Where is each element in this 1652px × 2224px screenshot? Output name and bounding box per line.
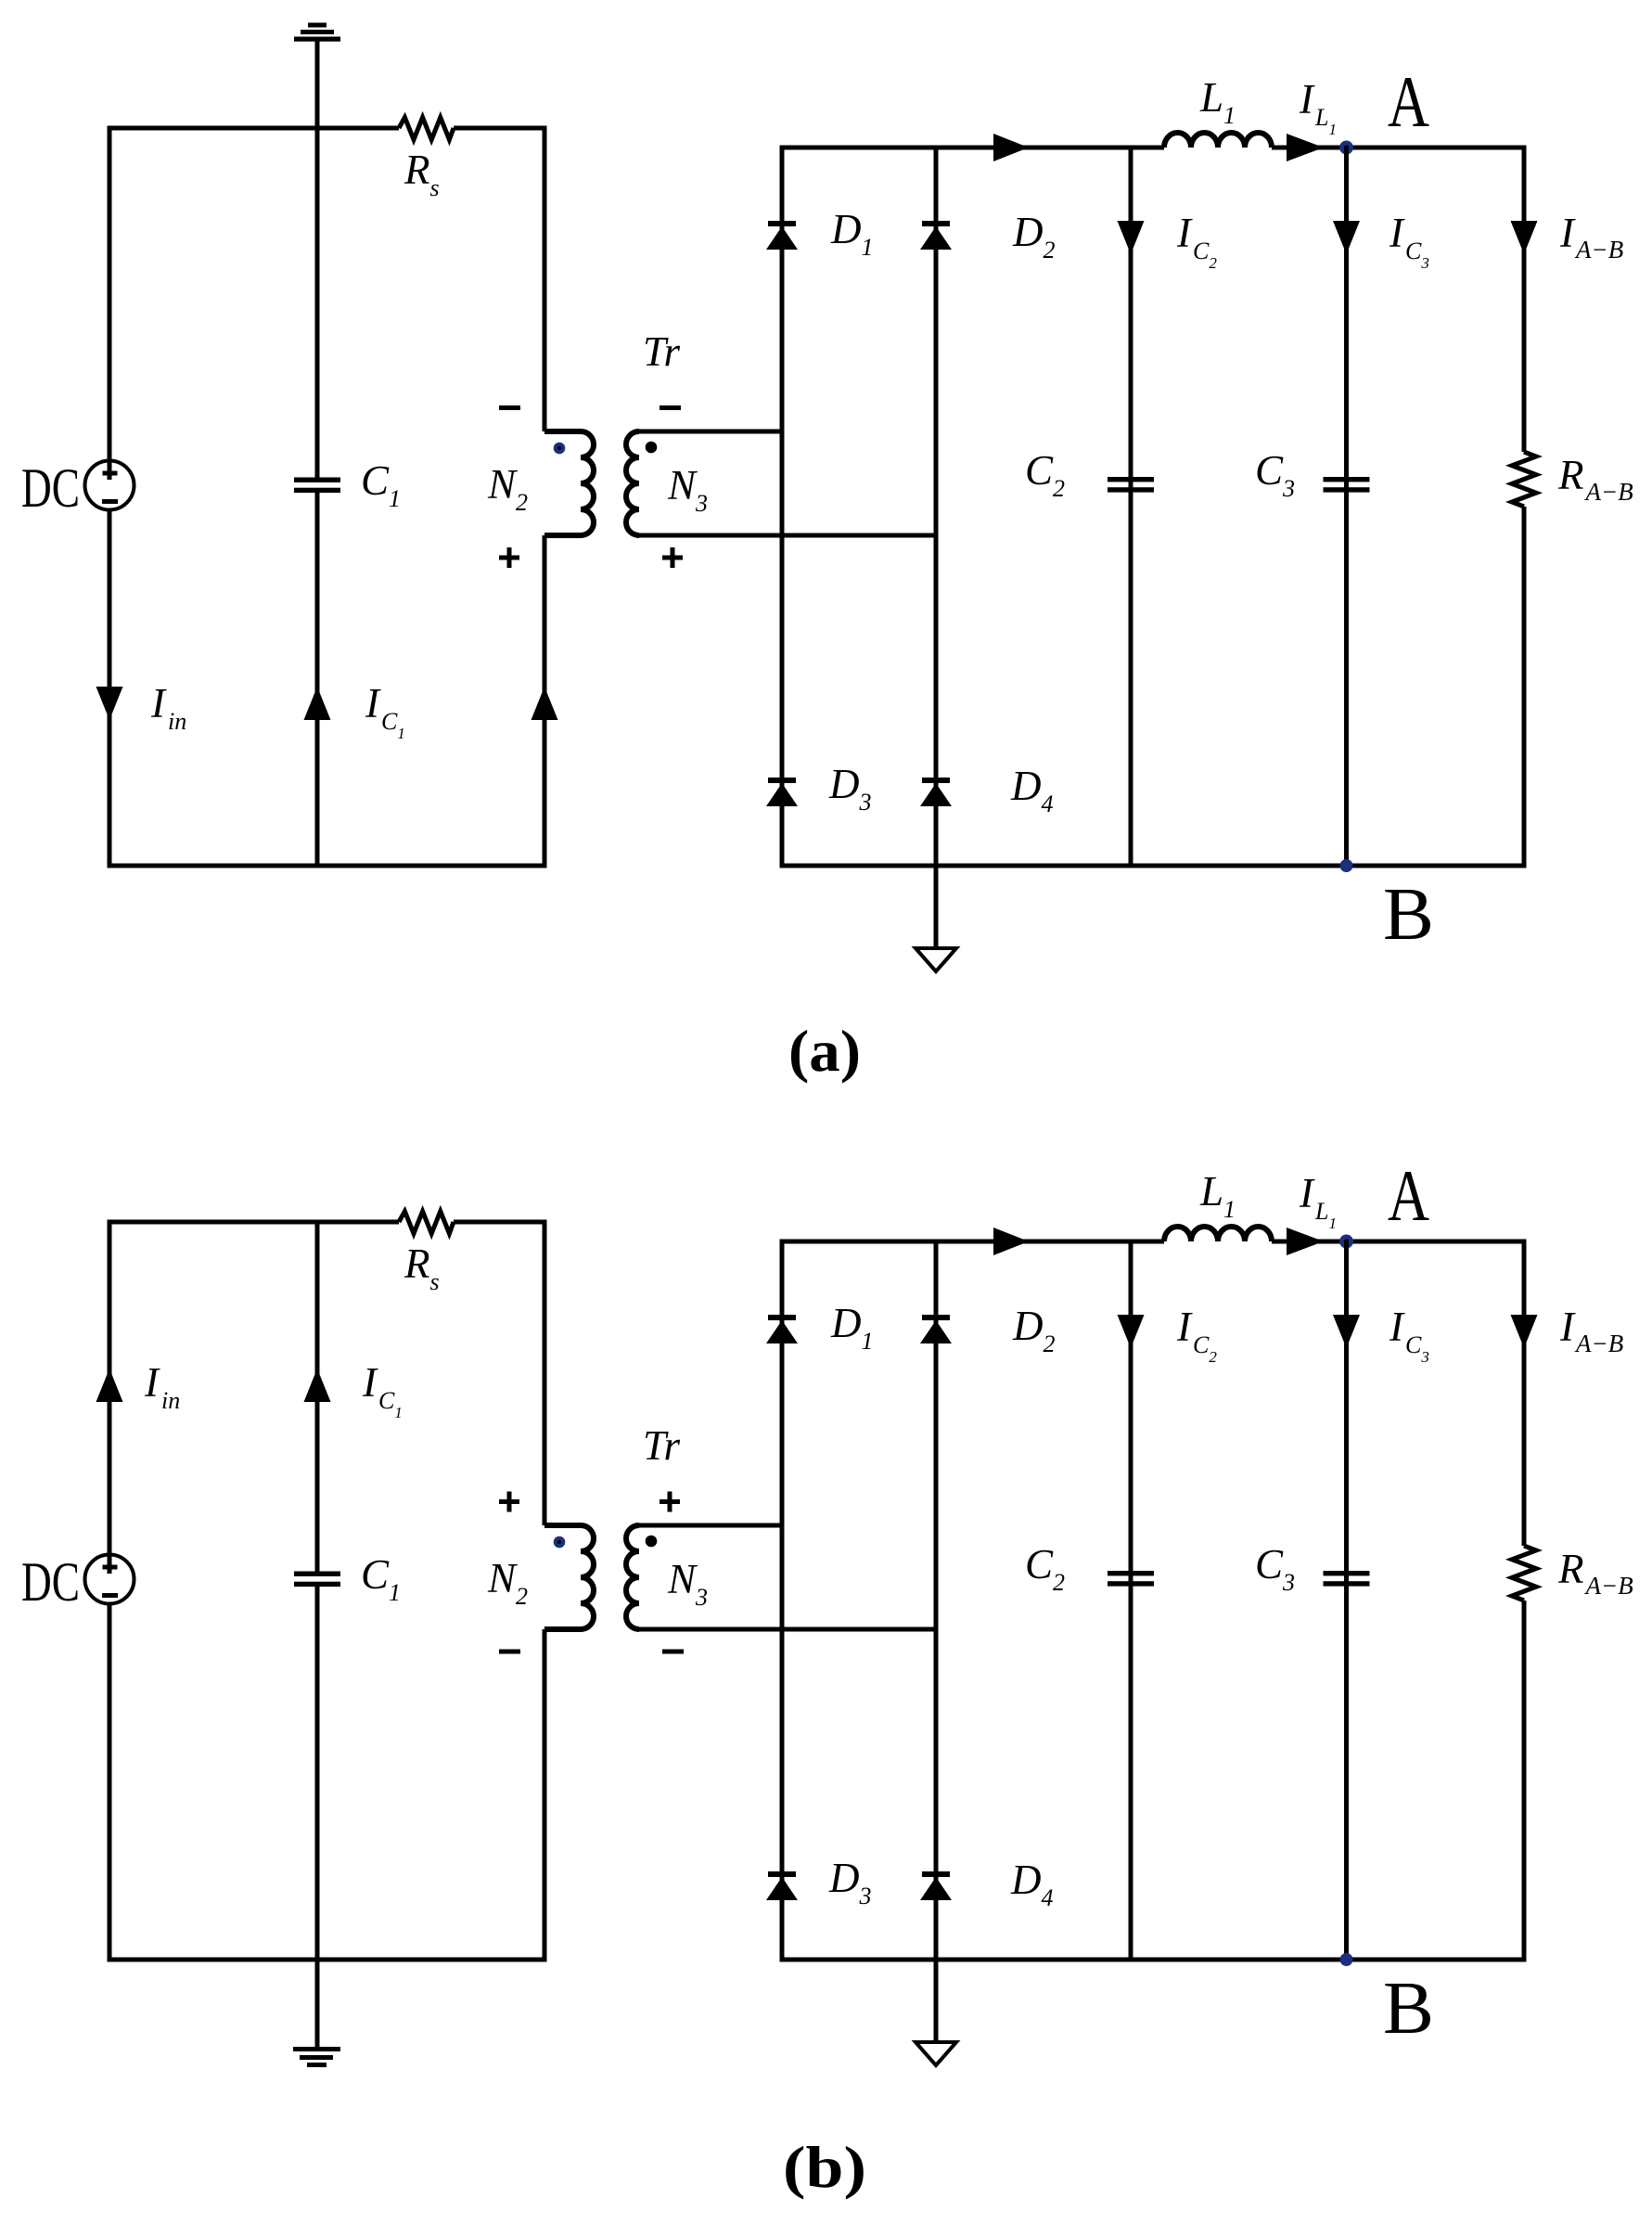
capacitor C1: [294, 478, 340, 494]
node B junction dot: [1340, 1953, 1353, 1966]
wire: D1/D3 branch: [780, 146, 785, 868]
wire: left vertical (source branch), lower: [108, 510, 112, 868]
wire: N3 top terminal: [639, 430, 785, 434]
polarity dot N2: [554, 1536, 566, 1549]
wire: load branch lower: [1522, 1601, 1527, 1962]
diode D3: [766, 1871, 798, 1900]
DC source: [85, 1555, 134, 1604]
current arrow I_A-B (down): [1511, 1315, 1538, 1348]
capacitor C3: [1324, 1571, 1370, 1587]
wire: bridge bottom rail: [780, 864, 1527, 868]
wire: C2 branch: [1129, 1240, 1133, 1962]
svg-text:(b): (b): [783, 2134, 866, 2200]
transformer secondary winding N3: [626, 1525, 639, 1629]
wire: top rail of input loop: [108, 1220, 547, 1225]
wire: D2/D4 branch: [934, 146, 939, 868]
current arrow I_C3 (down): [1333, 221, 1360, 254]
label - (N3 bottom): [662, 1650, 684, 1654]
wire: bridge top rail: [780, 1240, 1527, 1244]
wire: bridge bottom rail: [780, 1958, 1527, 1962]
current arrow on N2 branch (up): [531, 687, 558, 720]
node A junction dot: [1339, 141, 1353, 155]
svg-text:A: A: [1388, 1155, 1429, 1236]
current arrow I_C1 (up): [304, 1369, 331, 1402]
wire: N3 bottom terminal: [639, 1627, 939, 1632]
svg-text:B: B: [1383, 1968, 1434, 2050]
wire: C3 branch: [1344, 1241, 1349, 1962]
current arrow I_in (down): [96, 687, 123, 720]
transformer primary winding N2: [544, 431, 594, 535]
ground (bridge, hollow triangle): [916, 948, 956, 971]
resistor Rs: [399, 118, 454, 140]
wire: C1 branch, lower: [315, 1587, 320, 1962]
ground (top of C1 branch): [294, 23, 340, 131]
capacitor C2: [1108, 477, 1154, 493]
wire: N2 branch, lower: [543, 1629, 547, 1962]
svg-text:B: B: [1383, 874, 1434, 956]
svg-text:A: A: [1388, 61, 1429, 142]
wire: N2 branch, upper: [543, 126, 547, 432]
label - (N2 top): [499, 405, 520, 410]
capacitor C2: [1108, 1571, 1154, 1587]
diode D1: [766, 1315, 798, 1343]
current arrow I_A-B (down): [1511, 221, 1538, 254]
resistor R_A-B: [1512, 1546, 1536, 1601]
current arrow I_L1 (right): [1287, 134, 1324, 161]
diode D2: [920, 221, 952, 250]
wire: D1/D3 branch: [780, 1240, 785, 1962]
node A junction dot: [1339, 1235, 1353, 1249]
diode D4: [920, 778, 952, 806]
svg-text:Tr: Tr: [643, 328, 681, 375]
inductor L1: [1164, 133, 1272, 148]
label - (N3 top): [660, 405, 681, 410]
current arrow I_in (up): [96, 1369, 123, 1402]
polarity dot N2: [554, 443, 566, 455]
wire: N2 branch, upper: [543, 1220, 547, 1526]
ground (bridge, hollow triangle): [916, 2042, 956, 2065]
svg-text:DC: DC: [21, 1551, 80, 1613]
diode D4: [920, 1871, 952, 1900]
wire: D2/D4 branch: [934, 1240, 939, 1962]
diode D3: [766, 778, 798, 806]
wire: N2 branch, lower: [543, 535, 547, 868]
label + (N2 bottom): [499, 547, 519, 568]
current arrow I_L1 (right): [1287, 1228, 1324, 1255]
wire: load branch upper: [1522, 1240, 1527, 1547]
polarity dot N3: [646, 442, 658, 454]
label + (N3 bottom): [662, 547, 683, 568]
svg-text:(a): (a): [788, 1018, 861, 1084]
node B junction dot: [1340, 859, 1353, 872]
wire: top rail of input loop: [108, 126, 547, 131]
diode D1: [766, 221, 798, 250]
wire: bottom rail of input loop: [108, 1958, 547, 1962]
wire: C1 branch, lower: [315, 493, 320, 868]
DC source: [85, 461, 134, 510]
wire: left vertical (source branch), upper: [108, 1220, 112, 1555]
polarity dot N3: [646, 1536, 658, 1548]
current arrow I_C1 (up): [304, 687, 331, 720]
wire: C1 branch, upper: [315, 1220, 320, 1572]
current arrow on bridge output (right): [993, 1228, 1029, 1255]
resistor Rs: [399, 1212, 454, 1234]
inductor L1: [1164, 1227, 1272, 1241]
svg-text:Tr: Tr: [643, 1422, 681, 1469]
wire: left vertical (source branch), lower: [108, 1604, 112, 1962]
transformer secondary winding N3: [626, 431, 639, 535]
svg-text:DC: DC: [21, 457, 80, 519]
wire: load branch upper: [1522, 146, 1527, 453]
capacitor C1: [294, 1572, 340, 1588]
current arrow I_C3 (down): [1333, 1315, 1360, 1348]
label + (N2 top): [499, 1492, 519, 1512]
wire: bridge top rail: [780, 146, 1527, 150]
diode D2: [920, 1315, 952, 1343]
label - (N2 bottom): [499, 1650, 520, 1654]
wire: load branch lower: [1522, 507, 1527, 868]
wire: stem to bridge ground: [934, 1960, 939, 2042]
wire: bottom rail of input loop: [108, 864, 547, 868]
label + (N3 top): [660, 1492, 680, 1512]
wire: N3 bottom terminal: [639, 534, 939, 538]
wire: stem to bridge ground: [934, 866, 939, 948]
current arrow I_C2 (down): [1118, 1315, 1145, 1348]
wire: C2 branch: [1129, 146, 1133, 868]
wire: C3 branch: [1344, 148, 1349, 868]
resistor R_A-B: [1512, 452, 1536, 507]
wire: C1 branch, upper: [315, 126, 320, 478]
current arrow I_C2 (down): [1118, 221, 1145, 254]
current arrow on bridge output (right): [993, 134, 1029, 161]
wire: C1 branch to ground: [315, 1960, 320, 2047]
ground (bottom of C1 branch): [293, 2047, 340, 2067]
wire: N3 top terminal: [639, 1523, 785, 1528]
transformer primary winding N2: [544, 1525, 594, 1629]
wire: left vertical (source branch), upper: [108, 126, 112, 461]
capacitor C3: [1324, 477, 1370, 493]
